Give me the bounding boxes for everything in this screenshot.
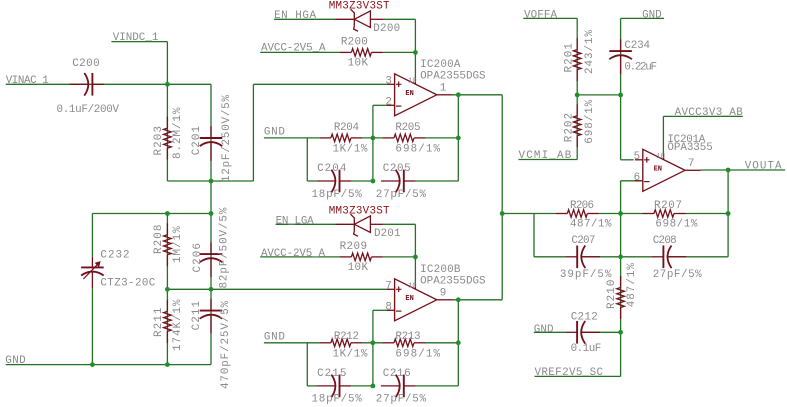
svg-text:C211: C211 [191,300,203,330]
svg-text:OPA2355DGS: OPA2355DGS [420,71,486,83]
svg-text:R205: R205 [395,122,420,134]
svg-text:VINAC_1: VINAC_1 [6,75,50,87]
svg-text:0.1uF/200V: 0.1uF/200V [57,104,120,116]
svg-text:EN: EN [405,90,413,98]
svg-text:0.1uF: 0.1uF [571,343,602,355]
svg-text:D201: D201 [374,228,401,240]
svg-text:470pF/25V/5%: 470pF/25V/5% [220,300,232,389]
svg-text:C216: C216 [383,368,411,380]
svg-text:EN_LGA: EN_LGA [276,215,315,227]
svg-text:6: 6 [634,172,641,184]
svg-text:R207: R207 [654,200,682,212]
svg-text:AVCC3V3_AB: AVCC3V3_AB [675,107,744,119]
svg-text:VOUTA: VOUTA [745,161,782,173]
svg-text:R203: R203 [153,126,165,155]
svg-text:EN_HGA: EN_HGA [274,10,316,22]
svg-text:698/1%: 698/1% [655,218,697,230]
svg-text:10: 10 [408,283,416,291]
svg-text:C208: C208 [653,235,677,247]
svg-text:VCMI_AB: VCMI_AB [519,150,572,162]
svg-text:AVCC-2V5_A: AVCC-2V5_A [261,248,326,260]
svg-text:18pF/5%: 18pF/5% [312,394,363,406]
svg-text:C200: C200 [72,58,100,70]
svg-text:27pF/5%: 27pF/5% [376,394,427,406]
svg-text:IC200B: IC200B [420,264,461,276]
svg-text:82pF/50V/5%: 82pF/50V/5% [219,207,231,288]
svg-text:D200: D200 [373,23,400,35]
svg-text:243/1%: 243/1% [584,29,596,74]
svg-text:C232: C232 [100,249,129,261]
svg-text:0.22uF: 0.22uF [624,62,657,74]
svg-text:487/1%: 487/1% [626,263,638,308]
svg-text:C206: C206 [192,243,204,272]
svg-text:10K: 10K [348,262,369,274]
svg-text:12pF/250V/5%: 12pF/250V/5% [221,95,233,182]
svg-text:R213: R213 [395,331,420,343]
svg-text:CTZ3-20C: CTZ3-20C [100,277,155,289]
svg-text:39pF/5%: 39pF/5% [560,269,612,281]
svg-text:18pF/5%: 18pF/5% [312,189,363,201]
svg-text:R208: R208 [153,225,165,254]
svg-text:487/1%: 487/1% [570,218,612,230]
svg-text:IC200A: IC200A [420,59,461,71]
svg-text:R211: R211 [153,307,165,337]
svg-text:1: 1 [440,82,447,94]
svg-text:VINDC_1: VINDC_1 [113,32,159,44]
svg-text:GND: GND [264,332,285,344]
svg-text:R212: R212 [334,331,359,343]
svg-text:1M/1%: 1M/1% [172,226,184,263]
svg-text:C201: C201 [191,125,203,155]
svg-text:8.2M/1%: 8.2M/1% [172,107,184,159]
svg-text:OPA3355: OPA3355 [667,142,712,154]
svg-text:EN: EN [654,166,662,174]
svg-text:10: 10 [408,78,416,86]
svg-text:R202: R202 [563,113,575,142]
svg-text:5: 5 [634,151,641,163]
svg-text:VREF2V5_SC: VREF2V5_SC [535,367,604,379]
svg-text:AVCC-2V5_A: AVCC-2V5_A [261,43,326,55]
svg-text:9: 9 [440,287,447,299]
svg-text:R210: R210 [606,280,618,309]
svg-text:10K: 10K [348,58,369,70]
svg-text:GND: GND [5,355,25,367]
svg-text:C205: C205 [383,163,411,175]
svg-text:C212: C212 [571,312,598,324]
svg-text:1K/1%: 1K/1% [333,143,368,155]
svg-text:8: 8 [385,302,392,314]
svg-text:GND: GND [534,324,554,336]
svg-text:3: 3 [385,76,392,88]
svg-text:27pF/5%: 27pF/5% [653,269,702,281]
svg-text:R204: R204 [334,122,359,134]
svg-text:R200: R200 [341,36,368,48]
svg-text:2: 2 [385,97,392,109]
svg-text:R201: R201 [563,43,575,73]
svg-text:698/1%: 698/1% [395,348,440,360]
svg-text:1K/1%: 1K/1% [333,348,368,360]
svg-text:GND: GND [264,127,285,139]
svg-text:7: 7 [688,158,695,170]
svg-text:C234: C234 [624,40,650,52]
svg-text:OPA2355DGS: OPA2355DGS [420,276,486,288]
svg-text:GND: GND [642,10,662,22]
svg-text:MM3Z3V3ST: MM3Z3V3ST [329,205,390,217]
svg-text:R206: R206 [570,200,594,212]
svg-text:698/1%: 698/1% [584,99,596,144]
svg-text:27pF/5%: 27pF/5% [376,189,427,201]
svg-text:174K/1%: 174K/1% [172,299,184,351]
svg-text:698/1%: 698/1% [395,143,440,155]
svg-text:VOFFA: VOFFA [524,10,557,22]
svg-text:C215: C215 [317,368,346,380]
svg-text:10: 10 [656,153,664,161]
svg-text:C204: C204 [317,163,346,175]
svg-text:R209: R209 [340,241,367,253]
svg-text:C207: C207 [571,235,595,247]
svg-text:MM3Z3V3ST: MM3Z3V3ST [329,0,390,12]
svg-text:7: 7 [385,281,392,293]
svg-text:EN: EN [405,295,413,303]
